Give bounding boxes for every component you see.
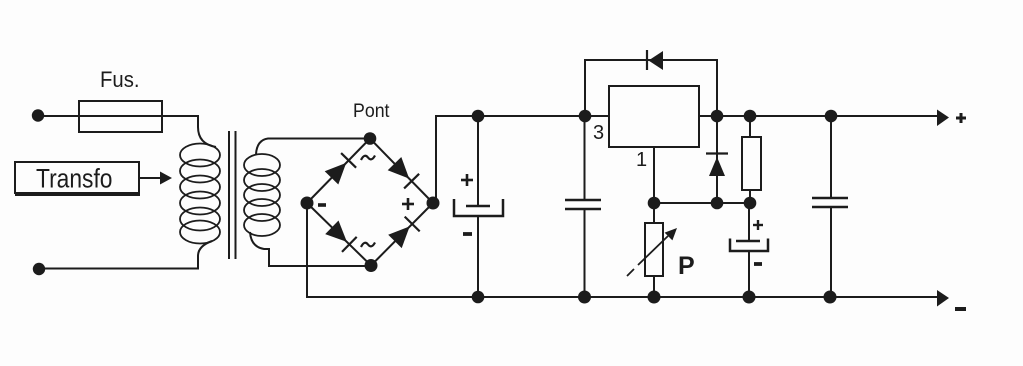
label plus C1 bbox=[461, 174, 473, 186]
wire bridge left to bottom rail bbox=[307, 203, 938, 297]
label plus bridge bbox=[402, 198, 414, 210]
capacitor C2 wire top bbox=[584, 116, 586, 200]
bridge edge top-left bbox=[307, 139, 370, 204]
wire regulator out down to adjust bbox=[716, 116, 718, 203]
label plus C3 bbox=[753, 220, 763, 230]
node C1 bottom bbox=[472, 291, 485, 304]
capacitor C1 wire top bbox=[477, 116, 479, 206]
node resistor bottom bbox=[744, 197, 757, 210]
wire input to fuse bbox=[38, 115, 198, 117]
label Transfo box bbox=[15, 162, 140, 195]
label output minus bbox=[955, 307, 966, 311]
svg-text:P: P bbox=[678, 252, 695, 280]
wire bridge right up to top rail bbox=[433, 116, 609, 203]
capacitor C1 bbox=[454, 199, 503, 216]
capacitor C1 wire bottom bbox=[477, 216, 479, 297]
node C2 bottom bbox=[578, 291, 591, 304]
wire adjust rail bbox=[654, 202, 750, 204]
node resistor top bbox=[744, 110, 757, 123]
node C2 top bbox=[579, 110, 592, 123]
potentiometer P bbox=[645, 203, 663, 297]
transformer core bbox=[229, 131, 236, 259]
label output plus bbox=[956, 113, 966, 123]
diode D3 bottom-left bbox=[325, 221, 357, 252]
label ~ bottom bbox=[361, 243, 375, 248]
node bridge top bbox=[364, 132, 377, 145]
svg-text:Fus.: Fus. bbox=[100, 67, 140, 92]
capacitor C4 bbox=[812, 198, 848, 207]
node bridge bottom bbox=[365, 259, 378, 272]
node C4 top bbox=[825, 110, 838, 123]
input terminal bottom bbox=[33, 263, 45, 275]
wire secondary bottom to bridge bbox=[250, 232, 371, 266]
node bridge right bbox=[427, 197, 440, 210]
diode D4 bottom-right bbox=[388, 217, 420, 249]
potentiometer arrow bbox=[627, 228, 677, 276]
node bridge left bbox=[301, 197, 314, 210]
resistor R1 bbox=[742, 116, 761, 203]
label ~ top bbox=[361, 156, 375, 161]
capacitor C2 wire bottom bbox=[584, 209, 586, 297]
output arrow minus bbox=[937, 290, 949, 307]
node D6 bottom bbox=[711, 197, 724, 210]
capacitor C2 bbox=[565, 200, 601, 209]
wire top diode loop bbox=[585, 60, 717, 116]
capacitor C4 wire bottom bbox=[830, 207, 832, 297]
wire adjust pin bbox=[653, 147, 655, 203]
capacitor C3 wire bottom bbox=[748, 251, 750, 297]
fuse F1 bbox=[79, 101, 162, 132]
bridge edge bottom-left bbox=[307, 203, 371, 266]
bridge edge bottom-right bbox=[371, 203, 433, 266]
wire bottom input to primary bbox=[39, 241, 212, 269]
node adjust pin1 bbox=[648, 197, 661, 210]
transformer primary winding bbox=[180, 144, 220, 244]
input terminal top bbox=[32, 109, 44, 121]
output arrow plus bbox=[937, 110, 949, 127]
regulator U1 bbox=[609, 86, 699, 147]
diode D2 top-right bbox=[388, 157, 419, 188]
diode D5 over regulator bbox=[647, 50, 663, 70]
diode D1 top-left bbox=[325, 153, 356, 184]
wire secondary top to bridge bbox=[256, 139, 370, 155]
node regulator out bbox=[711, 110, 724, 123]
bridge edge top-right bbox=[370, 139, 433, 204]
capacitor C3 wire top bbox=[748, 203, 750, 241]
wire fuse to primary bbox=[198, 115, 216, 147]
transformer secondary winding bbox=[244, 154, 280, 236]
label minus C3 bbox=[754, 262, 762, 266]
arrow Transfo pointer bbox=[139, 172, 172, 185]
svg-text:1: 1 bbox=[636, 149, 647, 171]
label minus bridge bbox=[318, 203, 326, 207]
capacitor C4 wire top bbox=[830, 116, 832, 198]
node C3 bottom bbox=[743, 291, 756, 304]
svg-text:3: 3 bbox=[593, 122, 604, 144]
capacitor C3 bbox=[730, 239, 768, 252]
node pot bottom bbox=[648, 291, 661, 304]
diode D6 adj-out bbox=[706, 154, 728, 177]
wire regulator out to + bbox=[699, 115, 938, 117]
svg-text:Transfo: Transfo bbox=[36, 164, 113, 194]
node C4 bottom bbox=[824, 291, 837, 304]
node C1 top bbox=[472, 110, 485, 123]
label minus C1 bbox=[463, 232, 472, 236]
svg-text:Pont: Pont bbox=[353, 100, 390, 122]
